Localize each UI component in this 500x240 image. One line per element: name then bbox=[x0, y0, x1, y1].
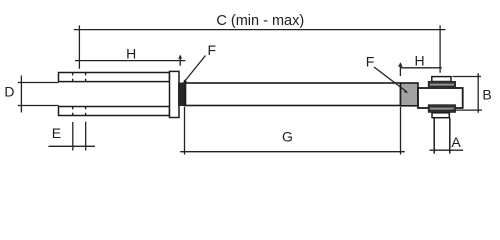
dimension B extension bottom bbox=[451, 109, 482, 111]
dimension B extension top bbox=[453, 76, 482, 78]
clevis bottom prong hole hidden edge left bbox=[72, 107, 74, 115]
dimension C line bbox=[74, 29, 446, 31]
clevis top prong hole hidden edge right bbox=[85, 73, 87, 81]
svg-text:A: A bbox=[451, 134, 461, 150]
dimension G line bbox=[180, 151, 405, 153]
svg-text:D: D bbox=[4, 83, 14, 99]
dimension B vertical line bbox=[477, 73, 479, 113]
dimension H left end arrowhead bbox=[178, 55, 182, 59]
svg-text:C (min - max): C (min - max) bbox=[216, 13, 304, 29]
top cap bbox=[432, 77, 451, 82]
dimension G extension left bbox=[184, 107, 186, 155]
dimension D vertical line bbox=[20, 76, 22, 113]
dimension H right line bbox=[400, 67, 441, 69]
dimension E line bbox=[49, 145, 96, 147]
dimension E extension right bbox=[85, 122, 87, 151]
bottom flange highlight bbox=[430, 108, 454, 110]
rod body bbox=[186, 83, 401, 106]
dimension C extension left (hole centre) bbox=[78, 25, 80, 68]
svg-text:G: G bbox=[282, 129, 293, 145]
stud left edge bbox=[433, 118, 435, 154]
svg-text:H: H bbox=[415, 52, 425, 68]
leader F right arrowhead bbox=[404, 90, 409, 93]
weld junction F (dark) bbox=[178, 83, 185, 107]
svg-text:E: E bbox=[52, 125, 61, 141]
leader F left arrowhead bbox=[183, 80, 187, 84]
svg-text:B: B bbox=[482, 87, 491, 103]
top flange (dark) bbox=[428, 81, 456, 88]
dimension H left line bbox=[75, 60, 185, 62]
leader F right bbox=[374, 67, 407, 92]
clevis top prong bbox=[59, 73, 170, 82]
bottom cap bbox=[432, 113, 449, 118]
dimension A line bbox=[430, 149, 464, 151]
dimension H left end arrow tail bbox=[179, 56, 181, 66]
dimension E extension left bbox=[72, 122, 74, 151]
clevis bottom prong hole hidden edge right bbox=[85, 107, 87, 115]
dimension G extension right bbox=[400, 107, 402, 155]
dimension D extension bottom bbox=[18, 105, 59, 107]
svg-text:F: F bbox=[208, 42, 217, 58]
dimension C extension right (stud centre) bbox=[439, 25, 441, 72]
clevis top prong hole hidden edge left bbox=[72, 73, 74, 81]
stud right edge bbox=[449, 118, 451, 154]
clevis end plate bbox=[170, 71, 180, 117]
dimension D extension top bbox=[18, 82, 59, 84]
dimension H right up-arrow tail bbox=[399, 64, 401, 77]
bottom flange (dark) bbox=[428, 104, 456, 113]
jam block gray bbox=[401, 83, 419, 106]
svg-text:F: F bbox=[366, 54, 375, 70]
rod end body bbox=[418, 88, 463, 108]
top flange highlight bbox=[430, 84, 454, 86]
clevis bottom prong bbox=[59, 107, 170, 116]
svg-text:H: H bbox=[126, 45, 136, 61]
leader F left bbox=[185, 56, 205, 81]
dimension H right up-arrowhead bbox=[398, 62, 403, 66]
